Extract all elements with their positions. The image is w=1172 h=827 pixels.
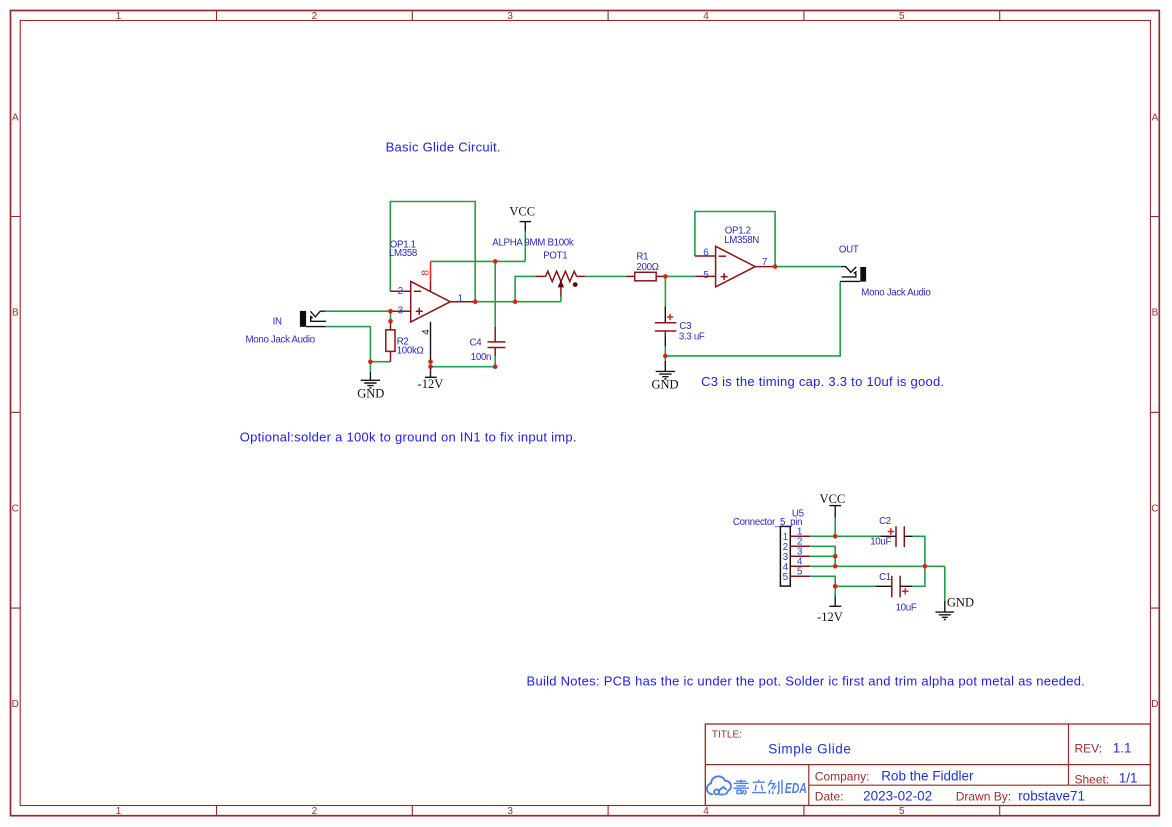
pin lead: POT1 right xyxy=(577,275,586,277)
svg-text:ALPHA 9MM B100k: ALPHA 9MM B100k xyxy=(492,237,574,248)
svg-text:POT1: POT1 xyxy=(543,250,567,261)
OUT jack arrow head xyxy=(853,270,858,275)
svg-text:Company:: Company: xyxy=(815,769,870,783)
resistor R1 body xyxy=(635,272,657,281)
ground symbol near C3 xyxy=(656,361,675,379)
wire: C3 bottom green xyxy=(664,346,666,356)
node: GND / C1 / C2 xyxy=(923,564,928,569)
wire: U5 pin3 xyxy=(810,555,835,557)
wire: C1 right up to GND node xyxy=(912,566,925,586)
pin lead: C3 top black xyxy=(664,306,666,322)
pin lead: POT1 wiper stem xyxy=(560,287,562,297)
pin lead: C3 bottom black xyxy=(664,336,666,346)
wire: VCC1 drop xyxy=(524,231,526,261)
wire: OP1.2 feedback loop xyxy=(695,212,775,267)
svg-text:5: 5 xyxy=(899,11,905,22)
svg-text:5: 5 xyxy=(899,806,905,817)
svg-text:Connector_5_pin: Connector_5_pin xyxy=(733,517,802,528)
svg-text:Mono Jack Audio: Mono Jack Audio xyxy=(861,287,930,298)
svg-text:LM358: LM358 xyxy=(389,248,417,259)
pin lead: C1 left black xyxy=(875,585,892,587)
op-amp OP1.2 minus mark xyxy=(719,255,726,257)
pin lead: R2 top xyxy=(390,321,392,330)
op-amp OP1.2 plus mark xyxy=(721,273,728,280)
wire: pin4 to -12V green bit xyxy=(430,362,432,367)
svg-text:1: 1 xyxy=(458,293,464,304)
capacitor C2 plates xyxy=(896,526,904,547)
wire: -12V stem green xyxy=(834,586,836,596)
OUT jack tip contact xyxy=(841,267,856,273)
node: VCC / pin1 xyxy=(833,534,838,539)
svg-text:IN: IN xyxy=(273,316,282,327)
pin lead: C2 right black xyxy=(904,535,913,537)
title block divider row1 xyxy=(705,764,1150,766)
wire: op1 output to pot tap xyxy=(475,301,561,303)
wire: R1 right node to op2 pin5 xyxy=(665,275,695,277)
svg-text:2: 2 xyxy=(398,286,404,297)
junction dots left circuit xyxy=(368,259,777,369)
svg-text:B: B xyxy=(12,307,19,318)
wire: op2 output to OUT jack xyxy=(775,266,841,268)
wire: pot wiper drop xyxy=(560,297,562,302)
svg-text:Build Notes: PCB has the ic un: Build Notes: PCB has the ic under the po… xyxy=(527,673,1086,688)
svg-text:3.3 uF: 3.3 uF xyxy=(679,331,705,342)
frame column ticks bottom xyxy=(217,806,1000,816)
pin lead: R2 bottom xyxy=(390,351,392,361)
svg-text:C: C xyxy=(1151,503,1158,514)
wire: ground bus C3 to OUT sleeve xyxy=(665,282,840,356)
svg-text:EDA: EDA xyxy=(785,780,807,797)
svg-text:A: A xyxy=(12,112,19,123)
U5 symbol pin numbers inside xyxy=(783,532,789,583)
wire: U5 pin2 down xyxy=(810,546,835,556)
svg-text:3: 3 xyxy=(398,305,404,316)
wire: U5 pin4 to GND corner xyxy=(810,565,945,567)
svg-text:3: 3 xyxy=(507,11,513,22)
frame column labels top xyxy=(116,11,905,22)
svg-text:B: B xyxy=(1152,307,1159,318)
wire: IN tip to pin3 xyxy=(325,310,390,312)
node: op1 out / feedback xyxy=(473,299,478,304)
svg-text:REV:: REV: xyxy=(1075,742,1103,756)
node: R1 right / C3 xyxy=(663,274,668,279)
node: op2 out xyxy=(773,264,778,269)
svg-text:A: A xyxy=(1152,112,1159,123)
svg-text:200Ω: 200Ω xyxy=(636,262,658,273)
pin lead: C1 right black xyxy=(900,585,912,587)
pin lead: OP1.2 pin5 xyxy=(695,275,715,277)
op-amp OP1.1 minus mark xyxy=(414,290,421,292)
node: pin3 tee xyxy=(833,554,838,559)
svg-text:10uF: 10uF xyxy=(896,602,917,613)
POT1 wiper arrow xyxy=(558,280,564,287)
capacitor C3 plates xyxy=(655,323,677,331)
junction dots power section xyxy=(833,534,927,589)
pin lead: OP1.1 pin8 maroon tail xyxy=(430,281,432,291)
title block divider row2 xyxy=(809,784,1151,786)
svg-text:Date:: Date: xyxy=(815,790,844,804)
svg-text:2: 2 xyxy=(312,11,318,22)
node: pin4 end xyxy=(428,359,433,364)
C3 polarity plus xyxy=(667,314,673,320)
logo JLC EDA cloud icon xyxy=(707,776,731,794)
svg-text:C3 is the timing cap. 3.3 to 1: C3 is the timing cap. 3.3 to 10uf is goo… xyxy=(701,374,944,389)
svg-text:Basic Glide Circuit.: Basic Glide Circuit. xyxy=(386,140,501,155)
pin lead: C4 top xyxy=(494,327,496,342)
svg-text:OUT: OUT xyxy=(839,245,859,256)
pin lead: C2 left black xyxy=(880,535,896,537)
wire: C3 branch down xyxy=(664,276,666,306)
svg-text:5: 5 xyxy=(703,270,709,281)
node: R2 top xyxy=(388,319,393,324)
svg-text:GND: GND xyxy=(651,378,678,392)
svg-text:1.1: 1.1 xyxy=(1113,741,1132,756)
node: C4 bottom xyxy=(493,364,498,369)
U5 pin number labels above leads xyxy=(797,526,803,577)
POT1 unconnected pin dot xyxy=(573,282,578,287)
svg-text:Optional:solder a 100k to grou: Optional:solder a 100k to ground on IN1 … xyxy=(240,429,577,444)
op-amp U2 OP1.2 triangle xyxy=(716,246,756,287)
svg-text:-12V: -12V xyxy=(418,377,444,391)
pin lead: R1 left xyxy=(626,275,635,277)
wire: U5 pin1 to VCC node xyxy=(810,535,880,537)
power symbol -12V at U5 xyxy=(830,596,842,606)
pin lead: POT1 left xyxy=(536,275,546,277)
wire: U5 pin5 to -12V node xyxy=(810,576,835,586)
frame row ticks left xyxy=(11,217,21,609)
node: pin4 tee xyxy=(833,564,838,569)
IN jack shunt contact with arrow xyxy=(311,318,326,321)
svg-text:GND: GND xyxy=(947,595,974,609)
node: pin3 / IN tip xyxy=(388,309,393,314)
wire: pins 2-3 to pin4 xyxy=(834,556,836,566)
svg-text:D: D xyxy=(12,699,19,710)
pin lead: U5 pin1 xyxy=(790,535,810,537)
ground symbol at U5 xyxy=(936,601,955,620)
svg-text:C1: C1 xyxy=(879,572,891,583)
pin lead: OP1.1 pin2 xyxy=(390,290,410,292)
C2 polarity plus xyxy=(888,528,894,534)
op-amp OP1.1 plus mark xyxy=(416,308,423,315)
svg-text:Drawn By:: Drawn By: xyxy=(956,790,1011,804)
svg-text:3: 3 xyxy=(507,806,513,817)
node: pot tap xyxy=(513,299,518,304)
capacitor C4 plates xyxy=(488,342,506,348)
pin lead: OP1.1 pin3 xyxy=(391,310,411,312)
wire: GND corner drop xyxy=(944,566,946,600)
wire: C3 GND stem green xyxy=(664,356,666,361)
svg-text:D: D xyxy=(1151,699,1158,710)
svg-text:LM358N: LM358N xyxy=(724,235,759,246)
wire: C4 top branch xyxy=(494,261,496,326)
pin lead: U5 pin5 xyxy=(790,575,810,577)
power symbol VCC at U5 xyxy=(829,506,841,518)
power symbol VCC top xyxy=(520,222,531,232)
node: VCC rail / C4 top xyxy=(493,259,498,264)
resistor R2 body xyxy=(386,330,395,352)
IN jack sleeve line xyxy=(306,326,325,328)
potentiometer POT1 zigzag xyxy=(546,271,577,281)
wire: C4 bottom to -12V rail xyxy=(431,356,496,367)
capacitor C1 plates xyxy=(892,576,900,598)
svg-text:2: 2 xyxy=(312,806,318,817)
frame row ticks right xyxy=(1150,217,1159,609)
connector jack J2 OUT: body rect xyxy=(860,267,866,282)
svg-text:4: 4 xyxy=(703,806,709,817)
node: pin5 / -12V / C1 xyxy=(833,584,838,589)
svg-text:6: 6 xyxy=(703,248,709,259)
svg-text:C3: C3 xyxy=(679,321,691,332)
svg-text:C: C xyxy=(12,503,19,514)
node: sleeve / R2 bottom / GND xyxy=(368,359,373,364)
svg-text:Rob the Fiddler: Rob the Fiddler xyxy=(881,768,974,783)
pin lead: U5 pin3 xyxy=(790,555,810,557)
pin lead: R1 right xyxy=(656,275,665,277)
svg-text:Simple Glide: Simple Glide xyxy=(768,742,851,757)
pin lead: C3 bottom xyxy=(664,331,666,336)
svg-text:100kΩ: 100kΩ xyxy=(397,346,424,357)
pin lead: OP1.1 pin1 output xyxy=(450,301,475,303)
svg-text:7: 7 xyxy=(762,257,768,268)
svg-text:C4: C4 xyxy=(470,338,483,349)
svg-text:TITLE:: TITLE: xyxy=(712,730,742,741)
power symbol -12V near OP1.1 xyxy=(425,367,437,378)
title block divider rev column xyxy=(1068,724,1070,785)
wire: GND stem green part xyxy=(369,362,371,372)
OUT jack sleeve line xyxy=(840,280,860,282)
svg-text:1: 1 xyxy=(116,11,122,22)
node: -12V tee xyxy=(428,364,433,369)
node: C3 bottom / ground bus xyxy=(663,354,668,359)
pin lead: OP1.1 pin8 red xyxy=(430,261,432,281)
wire: -12V node to C1 xyxy=(835,585,875,587)
svg-text:Mono Jack Audio: Mono Jack Audio xyxy=(246,334,315,345)
wire: OP1.1 feedback loop pin1 to pin2 xyxy=(390,202,475,302)
pin lead: U5 pin4 xyxy=(790,565,810,567)
OUT jack shunt contact with arrow xyxy=(842,274,856,277)
IN jack arrow head xyxy=(308,314,313,319)
wire: VCC at U5 drop xyxy=(834,518,836,537)
svg-text:5: 5 xyxy=(783,572,789,583)
svg-text:Sheet:: Sheet: xyxy=(1075,773,1110,787)
pin lead: OP1.2 pin7 xyxy=(755,266,775,268)
op-amp U1 OP1.1 triangle xyxy=(411,281,451,322)
wire: pin3 node down to R2 xyxy=(390,311,392,321)
IN jack tip contact xyxy=(310,311,325,317)
svg-text:GND: GND xyxy=(357,387,384,401)
svg-text:4: 4 xyxy=(421,329,432,335)
svg-text:4: 4 xyxy=(703,11,709,22)
ground symbol near IN xyxy=(361,372,380,388)
svg-text:8: 8 xyxy=(421,270,432,276)
pin lead: C4 bottom xyxy=(494,348,496,357)
pin lead: U5 pin2 xyxy=(790,545,810,547)
frame row labels left xyxy=(12,112,19,710)
wire: IN sleeve to GND and R2 bottom xyxy=(325,327,390,362)
svg-text:robstave71: robstave71 xyxy=(1018,789,1085,804)
svg-text:100n: 100n xyxy=(471,352,491,363)
logo text 嘉立创 (drawn strokes) xyxy=(734,780,783,795)
svg-text:-12V: -12V xyxy=(817,610,843,624)
frame column labels bottom xyxy=(116,806,905,817)
pin lead: OP1.1 pin4 black xyxy=(430,322,432,362)
connector U5 body xyxy=(780,526,790,586)
svg-text:R1: R1 xyxy=(636,252,648,263)
title block outline xyxy=(705,724,1150,806)
frame row labels right xyxy=(1151,112,1158,710)
connector jack J1 IN: body rect xyxy=(300,311,306,327)
svg-text:VCC: VCC xyxy=(509,205,535,219)
wire: output up to pot left xyxy=(515,276,535,301)
pin lead: OP1.2 pin6 xyxy=(695,255,716,257)
frame column ticks top xyxy=(217,11,1000,21)
svg-text:C2: C2 xyxy=(879,516,891,527)
wire: C2 right down to GND node xyxy=(913,536,925,566)
svg-text:1/1: 1/1 xyxy=(1119,771,1138,786)
wire: pot right to R1 xyxy=(585,275,626,277)
svg-text:VCC: VCC xyxy=(820,492,846,506)
svg-text:10uF: 10uF xyxy=(870,536,891,547)
svg-text:2023-02-02: 2023-02-02 xyxy=(863,789,932,804)
svg-text:1: 1 xyxy=(116,806,122,817)
wire: pin8 to VCC rail xyxy=(431,260,526,262)
C1 polarity plus xyxy=(902,588,908,594)
title block divider logo cell xyxy=(808,765,810,806)
